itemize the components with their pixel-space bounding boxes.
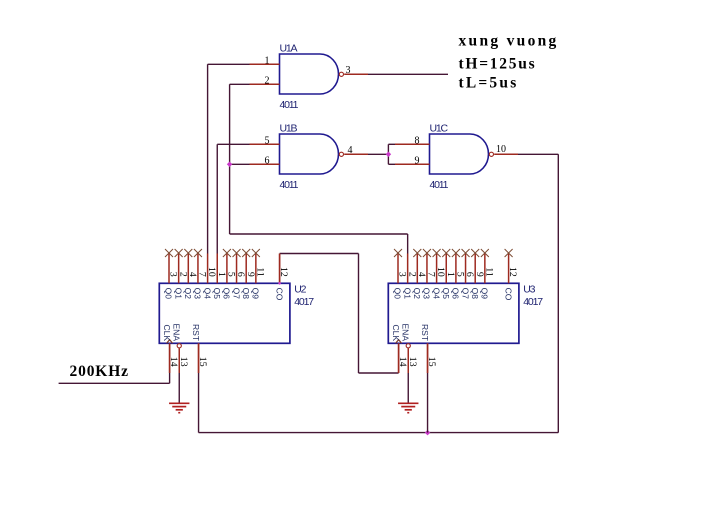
svg-text:Q2: Q2	[183, 288, 193, 300]
svg-text:Q4: Q4	[202, 288, 212, 300]
svg-text:9: 9	[245, 272, 256, 277]
svg-text:2: 2	[406, 272, 417, 277]
svg-text:Q1: Q1	[402, 288, 412, 300]
wire reset bus bottom horizontal	[199, 432, 559, 434]
no-connect X U3 Q7	[462, 249, 470, 257]
pin stub U2 Q9 (pin 11)	[255, 254, 257, 284]
svg-text:4011: 4011	[430, 179, 449, 191]
svg-text:4: 4	[187, 272, 198, 277]
svg-text:Q6: Q6	[451, 288, 461, 300]
svg-text:4011: 4011	[280, 99, 299, 111]
pin stub U1A pin 2	[250, 83, 280, 85]
wire U1A pin1 horizontal	[208, 63, 250, 65]
pin stub red U2 CO upper	[279, 254, 281, 284]
svg-text:Q0: Q0	[164, 288, 174, 300]
output bubble U1C pin 10	[489, 152, 493, 156]
pin stub U1B pin 6	[250, 163, 280, 165]
pin stub U2 Q1 (pin 2)	[178, 254, 180, 284]
svg-text:1: 1	[445, 272, 456, 277]
pin stub U3 Q2 (pin 4)	[416, 254, 418, 284]
NAND gate U1A	[280, 54, 339, 94]
pin stub red U3 RST lower	[427, 343, 429, 373]
wire U1C input tie vertical	[387, 144, 389, 164]
wire U3 ENA to ground	[407, 373, 409, 403]
svg-text:10: 10	[435, 267, 446, 277]
inversion bubble U2 ENA (pin 13)	[177, 344, 181, 348]
svg-text:Q4: Q4	[431, 288, 441, 300]
wire to U1C pin9	[388, 163, 395, 165]
pin stub U1B pin 5	[250, 143, 280, 145]
wire U1B output to U1C inputs	[368, 153, 388, 155]
wire U1A output pin3	[368, 73, 448, 75]
decade counter U2 body	[159, 283, 290, 343]
wire U1B pin5 horizontal	[217, 143, 249, 145]
wire U1A pin1 to U2 Q4 vertical	[207, 64, 209, 253]
svg-text:xung vuong: xung vuong	[459, 32, 559, 49]
no-connect X U3 Q0	[394, 249, 402, 257]
pin stub U2 Q8 (pin 9)	[245, 254, 247, 284]
svg-text:9: 9	[474, 272, 485, 277]
no-connect X U2 Q7	[233, 249, 241, 257]
pin stub U2 Q5 (pin 1)	[216, 254, 218, 284]
pin stub U3 Q0 (pin 3)	[397, 254, 399, 284]
svg-text:U3: U3	[523, 283, 535, 295]
svg-text:5: 5	[455, 272, 466, 277]
no-connect X U3 CO	[505, 249, 513, 257]
pin stub U2 Q4 (pin 10)	[207, 254, 209, 284]
svg-text:RST: RST	[191, 324, 201, 341]
ground symbol (U3 ENA)	[398, 402, 418, 404]
wire U2 CO vertical	[358, 254, 360, 374]
pin stub U2 Q0 (pin 3)	[168, 254, 170, 284]
wire to U3 CLK horizontal	[359, 372, 399, 374]
decade counter U3 body	[388, 283, 519, 343]
svg-text:11: 11	[483, 267, 494, 277]
svg-text:U1C: U1C	[430, 123, 449, 135]
wire U2 CO horizontal	[280, 253, 359, 255]
NAND gate U1B	[280, 134, 339, 174]
svg-text:4011: 4011	[280, 179, 299, 191]
pin stub U3 Q6 (pin 5)	[455, 254, 457, 284]
pin stub U3 Q8 (pin 9)	[474, 254, 476, 284]
wire U1A pin2 horizontal	[230, 83, 250, 85]
svg-text:ENA: ENA	[400, 324, 410, 342]
wire U3 Q1 vertical drop	[407, 234, 409, 254]
svg-text:7: 7	[426, 272, 437, 277]
svg-text:Q7: Q7	[460, 288, 470, 300]
wire U2 RST vertical	[198, 373, 200, 433]
no-connect X U2 Q6	[223, 249, 231, 257]
svg-text:CO: CO	[503, 288, 513, 301]
pin stub U2 CO (pin 12)	[279, 254, 281, 284]
svg-text:ENA: ENA	[171, 324, 181, 342]
pin stub U3 Q7 (pin 6)	[465, 254, 467, 284]
svg-text:Q3: Q3	[422, 288, 432, 300]
svg-text:5: 5	[226, 272, 237, 277]
no-connect X U2 Q1	[175, 249, 183, 257]
pin stub U3 Q5 (pin 1)	[445, 254, 447, 284]
pin stub red U2 ENA lower	[178, 348, 180, 373]
pin stub U1C pin 8	[395, 143, 430, 145]
svg-text:3: 3	[168, 272, 179, 277]
svg-text:tH=125us: tH=125us	[459, 55, 537, 72]
pin stub U2 Q7 (pin 6)	[236, 254, 238, 284]
svg-text:RST: RST	[420, 324, 430, 341]
no-connect X U2 Q2	[184, 249, 192, 257]
pin stub U2 ENA	[178, 349, 180, 373]
svg-text:CLK: CLK	[162, 324, 172, 341]
clock marker U3 CLK	[396, 340, 402, 344]
svg-text:12: 12	[507, 267, 518, 277]
no-connect X U3 Q6	[452, 249, 460, 257]
pin stub U3 Q3 (pin 7)	[426, 254, 428, 284]
svg-text:Q5: Q5	[212, 288, 222, 300]
no-connect X U3 Q4	[433, 249, 441, 257]
svg-text:Q5: Q5	[441, 288, 451, 300]
no-connect X U2 Q8	[242, 249, 250, 257]
output bubble U1A pin 3	[339, 72, 343, 76]
pin stub U1C pin 10	[494, 153, 518, 155]
pin stub red U3 ENA lower	[407, 348, 409, 373]
svg-text:4017: 4017	[523, 296, 543, 308]
no-connect X U2 Q9	[252, 249, 260, 257]
pin stub red U2 CLK lower	[169, 343, 171, 373]
ground symbol (U2 ENA)	[169, 402, 189, 404]
output bubble U1B pin 4	[339, 152, 343, 156]
pin stub U3 Q4 (pin 10)	[436, 254, 438, 284]
pin stub U2 Q2 (pin 4)	[187, 254, 189, 284]
wire 200KHz horizontal	[59, 382, 170, 384]
svg-text:2: 2	[177, 272, 188, 277]
svg-text:Q9: Q9	[480, 288, 490, 300]
pin stub U3 Q1 (pin 2)	[407, 254, 409, 284]
svg-text:11: 11	[254, 267, 265, 277]
svg-text:Q0: Q0	[393, 288, 403, 300]
wire feedback node to U3 Q1 horizontal	[230, 233, 408, 235]
no-connect X U3 Q2	[413, 249, 421, 257]
wire U1C output vertical right side	[557, 154, 559, 432]
pin stub U1C pin 9	[395, 163, 430, 165]
pin stub red U2 RST lower	[198, 343, 200, 373]
pin stub U3 RST (pin 15)	[427, 343, 429, 373]
no-connect X U3 Q5	[442, 249, 450, 257]
svg-text:U2: U2	[294, 283, 306, 295]
svg-text:CLK: CLK	[391, 324, 401, 341]
svg-text:U1B: U1B	[280, 123, 298, 135]
no-connect X U3 Q9	[481, 249, 489, 257]
no-connect X U2 Q3	[194, 249, 202, 257]
svg-text:Q9: Q9	[251, 288, 261, 300]
NAND gate U1C	[430, 134, 489, 174]
pin stub U2 RST (pin 15)	[198, 343, 200, 373]
svg-text:3: 3	[397, 272, 408, 277]
wire to U1C pin8	[388, 143, 395, 145]
pin stub U3 Q9 (pin 11)	[484, 254, 486, 284]
svg-text:Q6: Q6	[222, 288, 232, 300]
pin stub U2 Q6 (pin 5)	[226, 254, 228, 284]
svg-text:U1A: U1A	[280, 43, 298, 55]
wire U1B pin6 horizontal	[230, 163, 250, 165]
svg-text:Q8: Q8	[241, 288, 251, 300]
svg-text:Q1: Q1	[173, 288, 183, 300]
no-connect X U3 Q8	[471, 249, 479, 257]
wire U1C output horizontal	[518, 153, 558, 155]
svg-text:Q7: Q7	[231, 288, 241, 300]
no-connect X U2 Q0	[165, 249, 173, 257]
wire U2 ENA to ground	[178, 373, 180, 403]
svg-text:4017: 4017	[294, 296, 314, 308]
no-connect X U3 Q3	[423, 249, 431, 257]
pin stub U3 CLK (pin 14)	[398, 343, 400, 373]
svg-text:CO: CO	[274, 288, 284, 301]
pin stub U3 CO (pin 12)	[508, 254, 510, 284]
pin stub U1A pin 1	[250, 63, 280, 65]
junction U1C input node	[386, 152, 392, 158]
svg-text:Q3: Q3	[193, 288, 203, 300]
svg-text:200KHz: 200KHz	[70, 363, 129, 380]
svg-text:Q2: Q2	[412, 288, 422, 300]
wire U1B pin5 to U2 Q5 vertical	[216, 144, 218, 253]
svg-text:1: 1	[216, 272, 227, 277]
wire U1A pin2 / U1B pin6 vertical	[229, 84, 231, 234]
svg-text:6: 6	[235, 272, 246, 277]
wire 200KHz to U2 CLK vertical	[169, 373, 171, 383]
svg-text:tL=5us: tL=5us	[459, 75, 519, 92]
pin stub U2 Q3 (pin 7)	[197, 254, 199, 284]
wire U3 RST vertical	[427, 373, 429, 433]
pin connection dot U2 CO	[278, 282, 281, 285]
inversion bubble U3 ENA (pin 13)	[406, 344, 410, 348]
pin stub U1B pin 4	[344, 153, 368, 155]
pin stub red U3 CLK lower	[398, 343, 400, 373]
pin stub U1A pin 3	[344, 73, 368, 75]
pin stub U3 ENA	[407, 349, 409, 373]
clock marker U2 CLK	[167, 340, 173, 344]
svg-text:6: 6	[464, 272, 475, 277]
svg-text:4: 4	[416, 272, 427, 277]
svg-text:Q8: Q8	[470, 288, 480, 300]
junction U1B pin6 node	[227, 162, 233, 168]
junction U3 RST node	[425, 430, 431, 436]
svg-text:10: 10	[206, 267, 217, 277]
svg-text:7: 7	[197, 272, 208, 277]
pin stub U2 CLK (pin 14)	[169, 343, 171, 373]
